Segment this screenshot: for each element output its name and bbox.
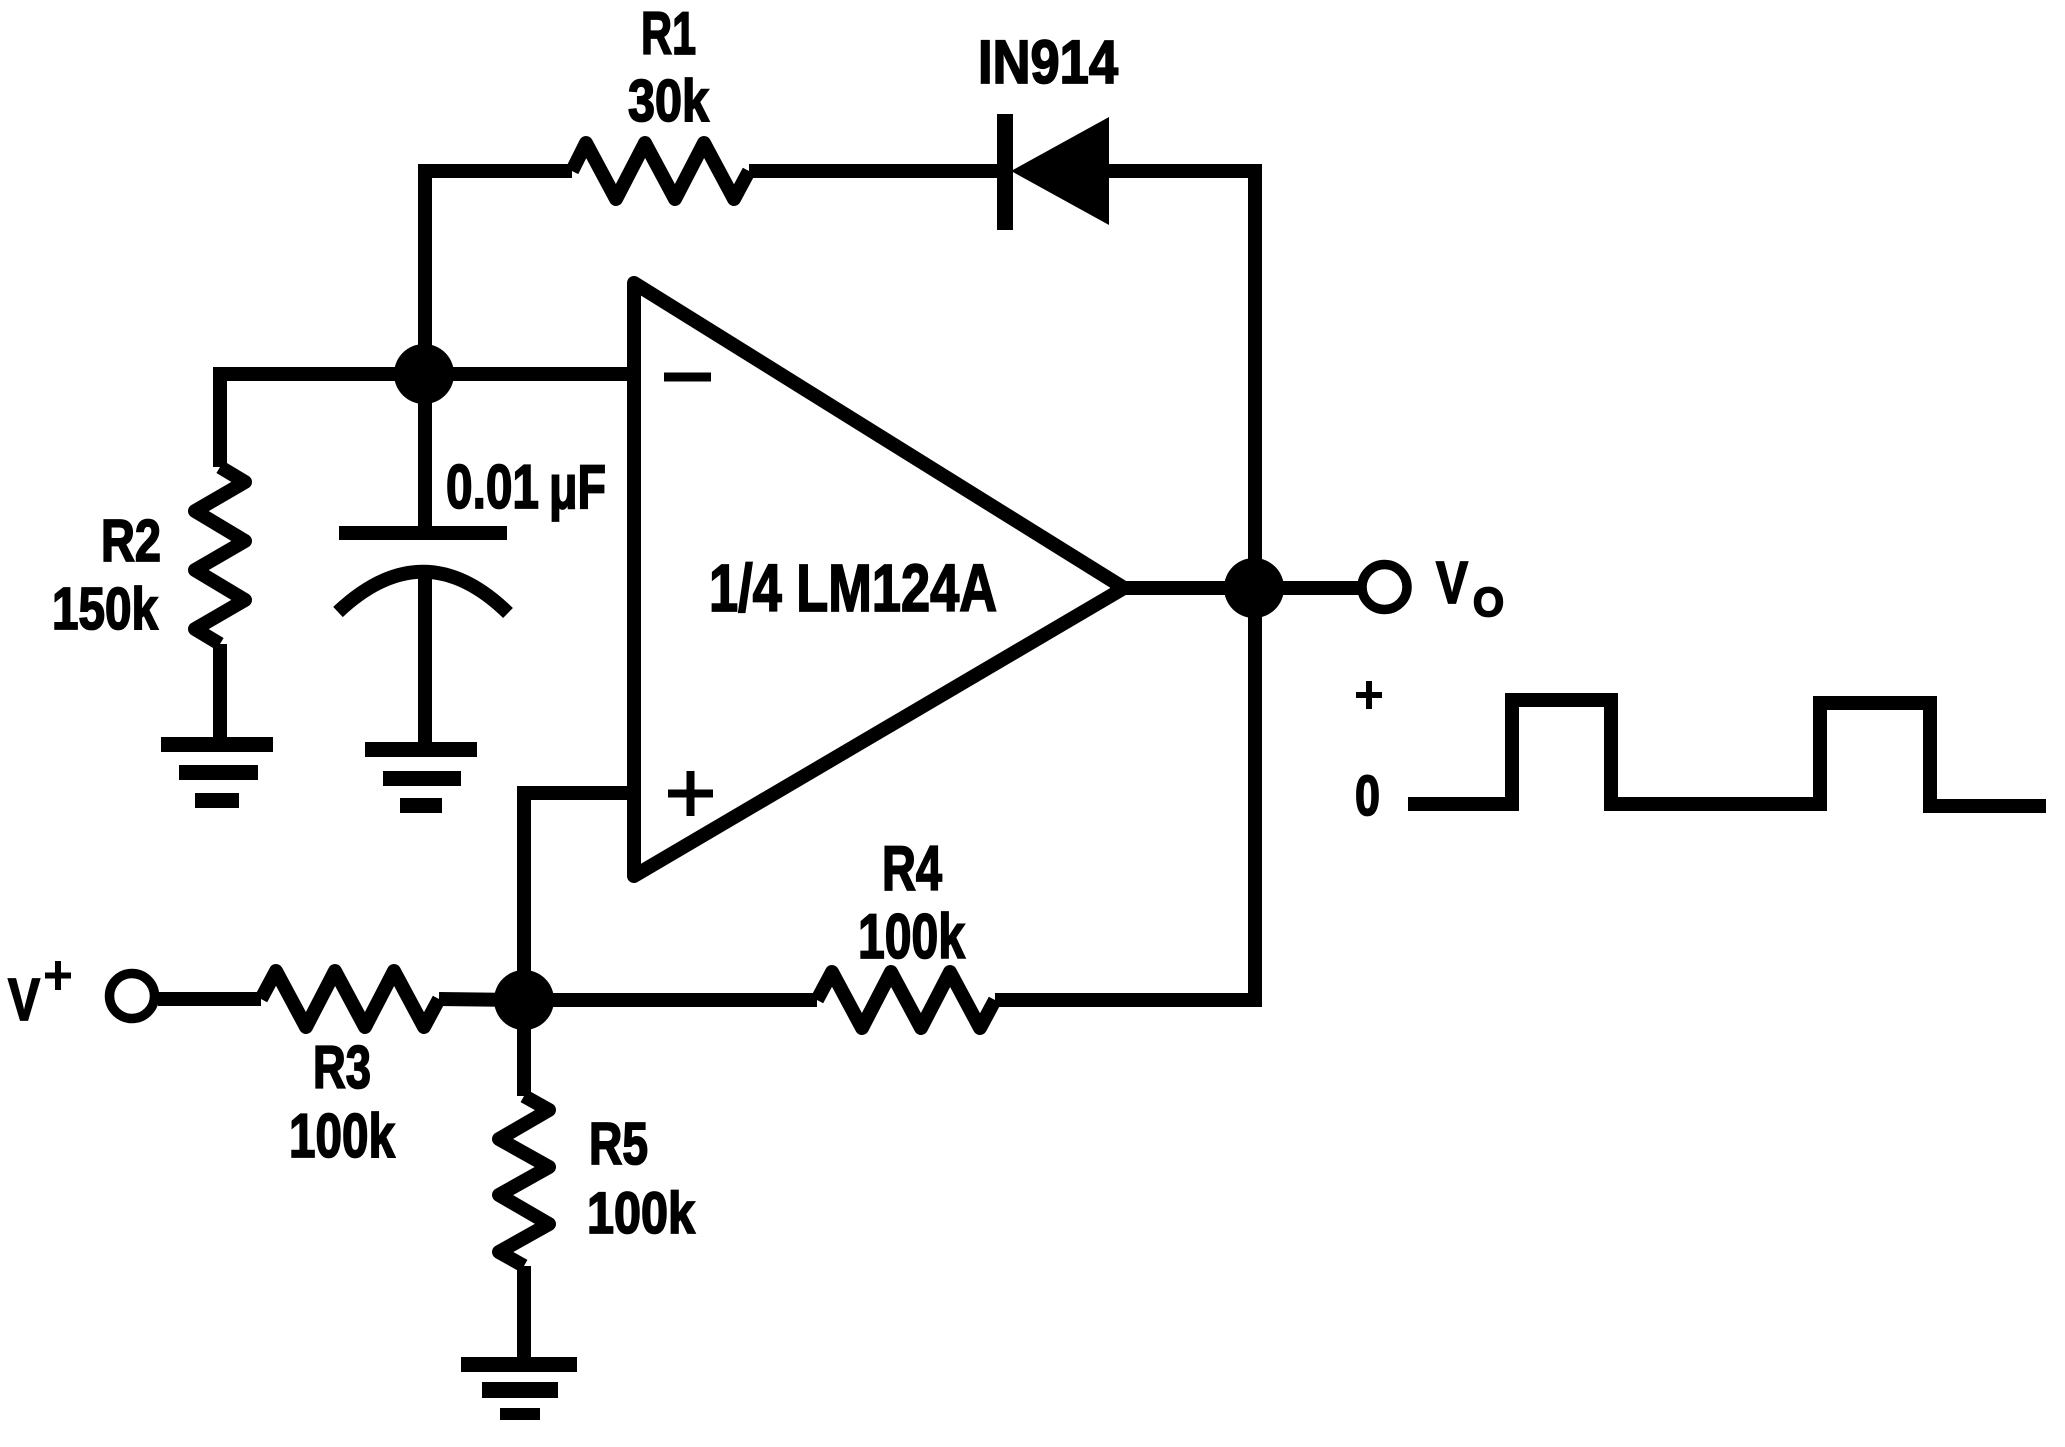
wire: capacitor to ground: [418, 570, 432, 748]
svg-text:R2: R2: [101, 508, 161, 574]
resistor R5: [499, 1096, 549, 1266]
svg-text:100k: 100k: [289, 1102, 395, 1171]
wire: op-amp output to Vo terminal: [1110, 581, 1362, 595]
wire: right rail bottom (output node down to R4 corner): [995, 588, 1255, 1000]
resistor R2: [195, 467, 245, 644]
svg-text:150k: 150k: [52, 576, 158, 642]
label + (waveform high level): [1356, 692, 1382, 698]
diode D1 IN914 triangle: [1011, 117, 1109, 225]
wire: R2 bottom to ground: [213, 644, 227, 744]
ground (R5): [461, 1357, 577, 1372]
svg-text:R1: R1: [641, 0, 696, 67]
svg-text:0.01: 0.01: [446, 453, 539, 522]
wire: V+ terminal to R3: [158, 992, 261, 1006]
wire: node left to R2 top: [220, 374, 425, 467]
svg-text:V: V: [8, 967, 40, 1033]
wire: diode anode to right rail corner: [1107, 171, 1255, 588]
resistor R1: [572, 143, 749, 199]
wire: inverting node up to R1 (top-left corner): [425, 171, 572, 381]
svg-text:1/4 LM124A: 1/4 LM124A: [709, 551, 997, 626]
ground (capacitor): [365, 742, 477, 757]
svg-text:100k: 100k: [858, 902, 966, 972]
wire: R5 bottom to ground: [517, 1266, 531, 1357]
terminal V+ (open circle): [110, 974, 155, 1019]
waveform: output square wave: [1408, 700, 2046, 806]
wire: node down to capacitor top plate: [418, 374, 432, 529]
node: feedback junction B: [494, 970, 554, 1030]
op-amp U1 1/4 LM124A triangle: [634, 283, 1124, 876]
svg-text:μF: μF: [549, 453, 606, 522]
svg-text:100k: 100k: [587, 1181, 696, 1246]
node: output junction: [1224, 558, 1284, 618]
svg-text:30k: 30k: [628, 68, 709, 134]
svg-text:R3: R3: [313, 1034, 371, 1101]
svg-text:0: 0: [1355, 764, 1380, 828]
wire: R1 to diode cathode: [749, 164, 999, 178]
diode D1 IN914 cathode bar: [997, 114, 1013, 230]
resistor R3: [261, 971, 439, 1027]
svg-text:O: O: [1473, 579, 1504, 625]
wire: node B to R4: [524, 993, 817, 1007]
wire: R3 to node B: [439, 999, 524, 1000]
wire: node to op-amp inverting input: [425, 367, 634, 381]
svg-text:IN914: IN914: [978, 28, 1118, 96]
op-amp non-inverting input marker (plus): [668, 790, 713, 798]
svg-text:V: V: [1436, 550, 1468, 616]
resistor R4: [817, 972, 995, 1028]
label V+ superscript plus: [45, 973, 71, 979]
capacitor C1 top plate: [339, 526, 507, 540]
op-amp inverting input marker (minus): [664, 373, 711, 382]
svg-text:R4: R4: [882, 834, 942, 904]
terminal Vo (open circle): [1362, 565, 1407, 610]
ground (R2): [161, 737, 273, 752]
svg-text:R5: R5: [589, 1111, 648, 1177]
capacitor C1 curved bottom plate: [338, 572, 508, 613]
node: inverting input junction: [394, 344, 454, 404]
wire: node B down to R5: [517, 1000, 531, 1096]
wire: op-amp non-inverting input left and down to node B: [524, 793, 634, 1000]
